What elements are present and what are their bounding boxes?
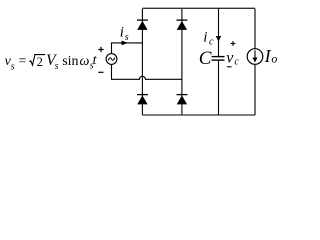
svg-text:v: v <box>226 49 234 66</box>
ac source vs <box>106 54 117 65</box>
wire source top vertical <box>111 43 113 54</box>
label Io <box>264 46 278 66</box>
current arrow is <box>122 41 129 46</box>
capacitor branch lower wire <box>218 60 220 115</box>
svg-text:s: s <box>55 61 59 72</box>
left bridge leg wire <box>141 9 143 116</box>
svg-text:s: s <box>125 32 129 43</box>
minus sign source polarity <box>98 71 103 73</box>
svg-text:ω: ω <box>80 54 90 69</box>
svg-text:I: I <box>264 46 272 66</box>
plus sign source polarity <box>98 47 103 52</box>
svg-text:2: 2 <box>37 55 43 69</box>
diode D3 top right <box>177 20 188 30</box>
label is <box>120 25 129 43</box>
right bridge leg wire <box>181 8 183 115</box>
diode D2 bottom right <box>177 95 188 105</box>
diode D1 top left <box>137 20 148 30</box>
current arrow ic <box>216 36 221 42</box>
svg-text:i: i <box>120 25 124 41</box>
wire source bottom vertical <box>111 64 113 79</box>
svg-text:c: c <box>234 57 239 68</box>
bottom rail wire <box>142 114 255 116</box>
wire return with hop over left leg <box>111 76 182 79</box>
source voltage formula vs = sqrt(2) Vs sin ws t <box>5 52 98 73</box>
label vc with polarity <box>226 41 239 68</box>
current source branch upper wire <box>254 9 256 49</box>
wire is horizontal <box>111 42 142 44</box>
svg-text:t: t <box>93 53 98 68</box>
current source branch lower wire <box>254 64 256 115</box>
label ic <box>203 29 214 47</box>
top rail wire <box>142 7 255 9</box>
svg-text:i: i <box>203 29 207 45</box>
svg-text:C: C <box>199 48 212 69</box>
current source Io <box>247 49 263 65</box>
svg-text:s: s <box>11 62 15 73</box>
svg-text:c: c <box>209 37 214 48</box>
capacitor branch upper wire <box>218 9 220 57</box>
svg-text:o: o <box>271 52 277 66</box>
svg-text:=: = <box>19 54 27 69</box>
capacitor C plates <box>212 57 225 61</box>
diode D4 bottom left <box>137 95 148 105</box>
svg-text:sin: sin <box>62 54 78 69</box>
